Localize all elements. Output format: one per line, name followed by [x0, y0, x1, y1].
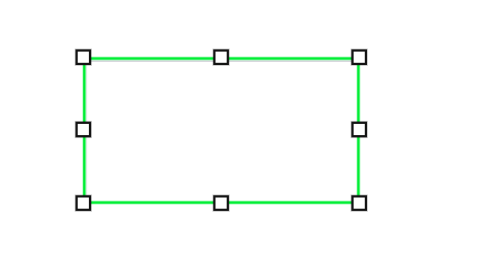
handle bottom-right: [353, 196, 366, 209]
handle bottom-middle: [214, 196, 227, 209]
handle halos: [77, 51, 366, 210]
shadow ghost right of left edge: [86, 64, 88, 197]
handle top-right: [353, 51, 366, 64]
handle top-middle: [214, 51, 227, 64]
handle middle-left: [77, 123, 90, 136]
shadow ghost under top edge: [90, 60, 355, 62]
handle bottom-left: [77, 196, 90, 209]
handle top-left: [77, 51, 90, 64]
selection rectangle green halo: [84, 59, 358, 203]
handle middle-right: [353, 123, 366, 136]
selection rectangle (green outline): [84, 59, 358, 203]
